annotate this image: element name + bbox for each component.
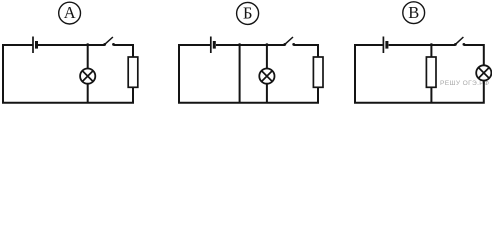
- svg-text:Б: Б: [243, 4, 252, 23]
- svg-text:В: В: [408, 3, 419, 22]
- svg-text:А: А: [64, 3, 76, 22]
